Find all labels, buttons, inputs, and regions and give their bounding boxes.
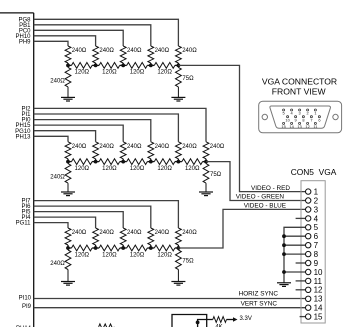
resistor 120Ω (green 2) bbox=[127, 159, 148, 165]
pin 8 of CON5 bbox=[306, 251, 311, 256]
svg-text:15: 15 bbox=[281, 124, 285, 129]
svg-text:240Ω: 240Ω bbox=[72, 144, 87, 150]
svg-text:PC0: PC0 bbox=[19, 28, 31, 34]
svg-text:240Ω: 240Ω bbox=[155, 48, 170, 54]
svg-text:HORIZ SYNC: HORIZ SYNC bbox=[239, 291, 279, 298]
svg-text:240Ω: 240Ω bbox=[182, 144, 197, 150]
junction node red col1 bbox=[66, 64, 70, 68]
resistor 240Ω (green bit 1) bbox=[93, 142, 99, 162]
component box (bottom, partial) bbox=[172, 315, 207, 327]
junction node red col2 bbox=[94, 64, 98, 68]
ground (blue terminator) bbox=[61, 282, 75, 286]
svg-text:PG11: PG11 bbox=[16, 221, 32, 227]
VGA front view pin 5 bbox=[283, 109, 285, 111]
svg-text:120Ω: 120Ω bbox=[102, 252, 117, 258]
wire node segment red 2b bbox=[147, 64, 151, 66]
wire node segment blue 3 bbox=[151, 247, 155, 249]
svg-text:5: 5 bbox=[314, 223, 319, 232]
resistor 120Ω (green 0) bbox=[72, 159, 93, 165]
wire VIDEO-RED net bbox=[178, 65, 305, 191]
resistor 120Ω (blue 1) bbox=[99, 245, 120, 251]
svg-text:VGA CONNECTOR: VGA CONNECTOR bbox=[262, 77, 337, 87]
wire node segment red 0 bbox=[68, 64, 72, 66]
resistor 120Ω (blue 2) bbox=[127, 245, 148, 251]
svg-text:240Ω: 240Ω bbox=[72, 48, 87, 54]
junction node blue col3 bbox=[121, 246, 125, 250]
svg-text:240Ω: 240Ω bbox=[182, 48, 197, 54]
svg-text:240Ω: 240Ω bbox=[50, 78, 65, 84]
wire PI1 to green DAC bit 4 bbox=[34, 114, 179, 142]
resistor 240Ω (green bit 3) bbox=[148, 142, 154, 162]
VGA front view: right mounting hole bbox=[333, 114, 338, 119]
svg-text:PH13: PH13 bbox=[15, 134, 31, 140]
resistor 240Ω (blue terminator) bbox=[65, 248, 71, 282]
svg-text:8: 8 bbox=[314, 250, 319, 259]
pin 13 of CON5 bbox=[306, 296, 311, 301]
svg-text:12: 12 bbox=[305, 124, 309, 129]
svg-text:15: 15 bbox=[314, 313, 323, 322]
wire stub pin 12 bbox=[296, 289, 306, 291]
svg-text:7: 7 bbox=[314, 241, 319, 250]
wire PB1 to red DAC bit 3 bbox=[34, 25, 151, 46]
wire 3.3V net bbox=[198, 320, 213, 327]
svg-text:PH9: PH9 bbox=[19, 39, 31, 45]
svg-text:PG8: PG8 bbox=[18, 17, 31, 23]
svg-text:8: 8 bbox=[302, 117, 304, 122]
resistor 240Ω (red bit 4) bbox=[176, 46, 182, 65]
resistor 120Ω (green 3) bbox=[154, 159, 175, 165]
resistor 240Ω (blue bit 4) bbox=[176, 228, 182, 248]
svg-text:120Ω: 120Ω bbox=[75, 252, 90, 258]
resistor 240Ω (red bit 2) bbox=[120, 46, 126, 65]
svg-text:PI6: PI6 bbox=[21, 204, 31, 210]
svg-text:PB1: PB1 bbox=[19, 23, 31, 29]
svg-text:240Ω: 240Ω bbox=[99, 230, 114, 236]
svg-text:4: 4 bbox=[314, 214, 319, 223]
svg-text:14: 14 bbox=[314, 304, 323, 313]
ground (CON5 shield/returns) bbox=[277, 283, 291, 287]
wire node segment red 1 bbox=[96, 64, 100, 66]
wire VIDEO-GREEN net bbox=[206, 162, 305, 201]
power symbol 3.3V arrow bbox=[227, 319, 234, 321]
svg-text:120Ω: 120Ω bbox=[130, 252, 145, 258]
svg-text:240Ω: 240Ω bbox=[72, 230, 87, 236]
wire PG10 to green DAC bit 1 bbox=[34, 131, 96, 142]
wire node segment blue 0b bbox=[92, 247, 96, 249]
pin 7 of CON5 bbox=[306, 243, 311, 248]
resistor 240Ω (blue bit 1) bbox=[93, 228, 99, 248]
svg-text:11: 11 bbox=[314, 277, 323, 286]
resistor 4K pull-up bbox=[213, 317, 227, 323]
resistor 120Ω (green 1) bbox=[99, 159, 120, 165]
VGA front view pin 11 bbox=[314, 122, 316, 124]
ground (red 75Ω) bbox=[171, 97, 185, 101]
svg-text:VIDEO - RED: VIDEO - RED bbox=[251, 185, 290, 192]
wire PC0 to red DAC bit 2 bbox=[34, 30, 124, 46]
junction ground bus pin 8 bbox=[282, 252, 286, 256]
pin 10 of CON5 bbox=[306, 269, 311, 274]
VGA front view pin 14 bbox=[291, 122, 293, 124]
VGA front view pin 12 bbox=[307, 122, 309, 124]
svg-text:11: 11 bbox=[313, 124, 317, 129]
svg-text:3.3V: 3.3V bbox=[240, 316, 252, 322]
wire node segment blue 2b bbox=[147, 247, 151, 249]
resistor 120Ω (red 3) bbox=[154, 63, 175, 69]
wire node segment green 0b bbox=[92, 161, 96, 163]
resistor 120Ω (red 2) bbox=[127, 63, 148, 69]
svg-text:1: 1 bbox=[314, 111, 316, 116]
svg-text:75Ω: 75Ω bbox=[182, 259, 194, 265]
wire PH15 to green DAC bit 2 bbox=[34, 125, 124, 142]
svg-text:2: 2 bbox=[307, 111, 309, 116]
VGA front view pin 9 bbox=[295, 116, 297, 118]
VGA front view pin 4 bbox=[291, 109, 293, 111]
junction node green col5 bbox=[177, 160, 181, 164]
svg-text:240Ω: 240Ω bbox=[182, 230, 197, 236]
resistor 240Ω (green bit 4) bbox=[176, 142, 182, 162]
pin 9 of CON5 bbox=[306, 260, 311, 265]
pin 11 of CON5 bbox=[306, 278, 311, 283]
junction node green col3 bbox=[121, 160, 125, 164]
svg-text:PI0: PI0 bbox=[21, 118, 31, 124]
svg-text:75Ω: 75Ω bbox=[182, 76, 194, 82]
VGA front view: D-sub shell trapezoid bbox=[270, 106, 331, 128]
pin 15 of CON5 bbox=[306, 314, 311, 319]
svg-text:7: 7 bbox=[310, 117, 312, 122]
svg-text:240Ω: 240Ω bbox=[210, 144, 225, 150]
svg-text:PI1: PI1 bbox=[21, 112, 31, 118]
wire node segment green 4b bbox=[203, 161, 207, 163]
junction node red col5 bbox=[177, 64, 181, 68]
wire node segment red 2 bbox=[123, 64, 127, 66]
wire node segment blue 3b bbox=[175, 247, 179, 249]
svg-text:240Ω: 240Ω bbox=[50, 175, 65, 181]
resistor 240Ω (red bit 0) bbox=[65, 46, 71, 65]
svg-text:6: 6 bbox=[314, 232, 319, 241]
resistor 75Ω (red output) bbox=[176, 65, 182, 97]
resistor 240Ω (blue bit 3) bbox=[148, 228, 154, 248]
svg-text:PI5: PI5 bbox=[21, 210, 31, 216]
VGA front view pin 2 bbox=[307, 109, 309, 111]
svg-text:VIDEO - GREEN: VIDEO - GREEN bbox=[236, 194, 285, 201]
wire node segment blue 1b bbox=[120, 247, 124, 249]
pin 2 of CON5 bbox=[306, 198, 311, 203]
svg-text:6: 6 bbox=[318, 117, 320, 122]
svg-text:12: 12 bbox=[314, 286, 323, 295]
pin 1 of CON5 bbox=[306, 189, 311, 194]
wire node segment red 3 bbox=[151, 64, 155, 66]
junction ground bus pin 7 bbox=[282, 243, 286, 247]
wire node segment blue 0 bbox=[68, 247, 72, 249]
VGA front view pin 8 bbox=[302, 116, 304, 118]
VGA front view pin 13 bbox=[299, 122, 301, 124]
svg-text:PI4: PI4 bbox=[21, 215, 31, 221]
wire node segment red 3b bbox=[175, 64, 179, 66]
resistor 75Ω (blue output) bbox=[176, 248, 182, 282]
junction node blue col4 bbox=[149, 246, 153, 250]
svg-text:120Ω: 120Ω bbox=[102, 70, 117, 76]
connector CON5 outline bbox=[301, 181, 325, 323]
wire PI2 to green DAC bit 5 bbox=[34, 108, 206, 141]
ground (red terminator) bbox=[61, 97, 75, 101]
wire PI0 to green DAC bit 3 bbox=[34, 120, 151, 142]
svg-text:1: 1 bbox=[314, 188, 319, 197]
svg-text:240Ω: 240Ω bbox=[99, 144, 114, 150]
pin 14 of CON5 bbox=[306, 305, 311, 310]
svg-text:PI2: PI2 bbox=[21, 107, 31, 113]
junction node green col6 bbox=[204, 160, 208, 164]
pin 5 of CON5 bbox=[306, 225, 311, 230]
wire stub pin 15 bbox=[300, 316, 306, 318]
wire pin 7 to ground bus bbox=[284, 244, 305, 246]
wire node segment green 2b bbox=[147, 161, 151, 163]
resistor 240Ω (green bit 5) bbox=[203, 142, 209, 162]
resistor 120Ω (blue 0) bbox=[72, 245, 93, 251]
wire pin 6 to ground bus bbox=[284, 235, 305, 237]
wire node segment green 0 bbox=[68, 161, 72, 163]
svg-text:120Ω: 120Ω bbox=[157, 166, 172, 172]
wire PH13 to green DAC bit 0 bbox=[34, 136, 68, 142]
junction ground bus pin 10 bbox=[282, 270, 286, 274]
wire pin 8 to ground bus bbox=[284, 253, 305, 255]
pin 6 of CON5 bbox=[306, 234, 311, 239]
svg-text:240Ω: 240Ω bbox=[127, 144, 142, 150]
svg-text:120Ω: 120Ω bbox=[185, 166, 200, 172]
wire PG11 to blue DAC bit 0 bbox=[34, 223, 68, 228]
svg-text:PI7: PI7 bbox=[21, 199, 31, 205]
svg-text:PH15: PH15 bbox=[15, 123, 31, 129]
resistor 240Ω (red bit 3) bbox=[148, 46, 154, 65]
VGA front view: left mounting hole bbox=[262, 114, 267, 119]
svg-text:FRONT VIEW: FRONT VIEW bbox=[272, 87, 327, 97]
resistor 240Ω (green bit 0) bbox=[65, 142, 71, 162]
wire PI4 to blue DAC bit 1 bbox=[34, 217, 96, 228]
wire node segment green 3b bbox=[175, 161, 179, 163]
VGA front view pin 6 bbox=[318, 116, 320, 118]
svg-text:2: 2 bbox=[314, 196, 319, 205]
resistor 75Ω (green output) bbox=[203, 162, 209, 192]
svg-text:240Ω: 240Ω bbox=[127, 230, 142, 236]
VGA front view pin 1 bbox=[314, 109, 316, 111]
svg-text:240Ω: 240Ω bbox=[50, 261, 65, 267]
resistor 240Ω (green bit 2) bbox=[120, 142, 126, 162]
VGA front view pin 3 bbox=[299, 109, 301, 111]
wire node segment blue 2 bbox=[123, 247, 127, 249]
svg-text:120Ω: 120Ω bbox=[157, 70, 172, 76]
svg-text:3: 3 bbox=[299, 111, 301, 116]
wire node segment green 2 bbox=[123, 161, 127, 163]
wire node segment green 1 bbox=[96, 161, 100, 163]
junction node green col4 bbox=[149, 160, 153, 164]
resistor 240Ω (blue bit 0) bbox=[65, 228, 71, 248]
svg-text:PI10: PI10 bbox=[19, 295, 32, 301]
pin 12 of CON5 bbox=[306, 287, 311, 292]
svg-text:120Ω: 120Ω bbox=[102, 166, 117, 172]
wire node segment red 0b bbox=[92, 64, 96, 66]
junction ground bus pin 6 bbox=[282, 234, 286, 238]
wire stub pin 9 bbox=[296, 262, 306, 264]
wire HORIZ SYNC net bbox=[34, 298, 306, 300]
wire PG8 to red DAC bit 4 bbox=[34, 19, 179, 46]
wire VERT SYNC net bbox=[34, 307, 306, 309]
junction node blue col2 bbox=[94, 246, 98, 250]
resistor 240Ω (green terminator) bbox=[65, 162, 71, 192]
ground (blue 75Ω) bbox=[171, 282, 185, 286]
svg-text:240Ω: 240Ω bbox=[127, 48, 142, 54]
wire node segment blue 1 bbox=[96, 247, 100, 249]
ground (green terminator) bbox=[61, 192, 75, 196]
svg-text:5: 5 bbox=[283, 111, 285, 116]
junction red output bbox=[177, 64, 179, 66]
svg-text:CON5 VGA: CON5 VGA bbox=[291, 167, 337, 177]
junction node green col1 bbox=[66, 160, 70, 164]
svg-text:120Ω: 120Ω bbox=[130, 70, 145, 76]
ground (green 75Ω) bbox=[199, 192, 213, 196]
wire node segment green 3 bbox=[151, 161, 155, 163]
wire VIDEO-BLUE net bbox=[178, 209, 305, 248]
junction node blue col5 bbox=[177, 246, 181, 250]
wire PI5 to blue DAC bit 2 bbox=[34, 212, 124, 228]
svg-text:120Ω: 120Ω bbox=[130, 166, 145, 172]
svg-text:75Ω: 75Ω bbox=[210, 172, 222, 178]
wire PI7 to blue DAC bit 4 bbox=[34, 201, 179, 228]
svg-text:10: 10 bbox=[314, 268, 323, 277]
svg-text:VERT SYNC: VERT SYNC bbox=[241, 301, 278, 308]
resistor 120Ω (green 4) bbox=[182, 159, 203, 165]
wire node segment green 1b bbox=[120, 161, 124, 163]
junction node red col4 bbox=[149, 64, 153, 68]
svg-text:PI9: PI9 bbox=[22, 304, 32, 310]
junction node green col2 bbox=[94, 160, 98, 164]
wire node segment red 1b bbox=[120, 64, 124, 66]
svg-text:PH10: PH10 bbox=[15, 34, 31, 40]
svg-text:13: 13 bbox=[297, 124, 301, 129]
junction node red col3 bbox=[121, 64, 125, 68]
resistor (bottom edge, partially visible) bbox=[99, 324, 115, 327]
wire PI6 to blue DAC bit 3 bbox=[34, 206, 151, 228]
resistor 120Ω (red 0) bbox=[72, 63, 93, 69]
svg-text:240Ω: 240Ω bbox=[99, 48, 114, 54]
resistor 240Ω (blue bit 2) bbox=[120, 228, 126, 248]
VGA front view pin 15 bbox=[283, 122, 285, 124]
junction node blue col1 bbox=[66, 246, 70, 250]
pin 4 of CON5 bbox=[306, 216, 311, 221]
svg-text:120Ω: 120Ω bbox=[75, 166, 90, 172]
svg-text:VIDEO - BLUE: VIDEO - BLUE bbox=[244, 203, 286, 210]
svg-text:240Ω: 240Ω bbox=[155, 144, 170, 150]
pin 3 of CON5 bbox=[306, 207, 311, 212]
VGA front view pin 7 bbox=[310, 116, 312, 118]
IC U1 (left, partially visible) bbox=[0, 13, 34, 327]
svg-text:120Ω: 120Ω bbox=[157, 252, 172, 258]
svg-text:9: 9 bbox=[295, 117, 297, 122]
svg-text:PG10: PG10 bbox=[15, 129, 31, 135]
resistor 240Ω (red bit 1) bbox=[93, 46, 99, 65]
wire stub pin 11 bbox=[296, 280, 306, 282]
resistor 120Ω (blue 3) bbox=[154, 245, 175, 251]
svg-text:9: 9 bbox=[314, 259, 319, 268]
svg-text:120Ω: 120Ω bbox=[75, 70, 90, 76]
resistor 120Ω (red 1) bbox=[99, 63, 120, 69]
svg-text:240Ω: 240Ω bbox=[155, 230, 170, 236]
wire node segment green 4 bbox=[178, 161, 182, 163]
svg-text:3: 3 bbox=[314, 205, 319, 214]
VGA front view: body outline bbox=[259, 101, 342, 133]
VGA front view pin 10 bbox=[287, 116, 289, 118]
resistor 240Ω (red terminator) bbox=[65, 65, 71, 97]
wire PH10 to red DAC bit 1 bbox=[34, 36, 96, 46]
wire PH9 to red DAC bit 0 bbox=[34, 41, 68, 46]
wire pin 10 to ground bus bbox=[284, 271, 305, 273]
junction 3.3V wire bbox=[196, 321, 200, 325]
svg-text:13: 13 bbox=[314, 295, 323, 304]
wire stub pin 4 bbox=[296, 217, 306, 219]
wire CON5 ground bus bbox=[284, 227, 305, 282]
